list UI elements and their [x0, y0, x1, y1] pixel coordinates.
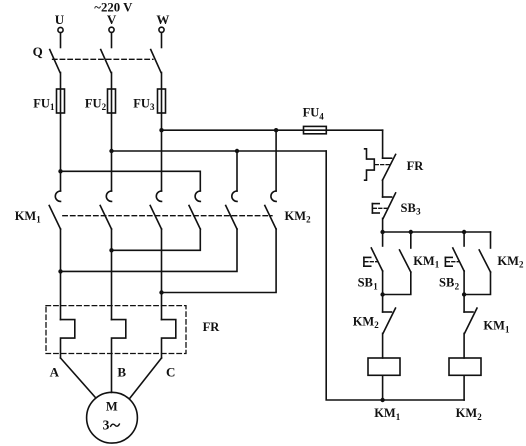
contactor KM2 label — [285, 209, 312, 225]
wire motor lead C — [130, 358, 162, 398]
contact KM1 auxiliary label — [413, 254, 440, 270]
wire SB1 bottom — [382, 271, 384, 295]
terminal V — [107, 12, 117, 32]
wire SB2 bottom — [463, 271, 465, 295]
coil KM1 — [368, 358, 400, 375]
node SB2-KM2aux junction — [462, 292, 466, 296]
wire motor lead A — [61, 358, 96, 397]
svg-text:V: V — [107, 12, 117, 27]
svg-text:4: 4 — [319, 111, 324, 121]
svg-text:2: 2 — [374, 320, 379, 330]
svg-text:2: 2 — [306, 215, 311, 225]
wire pole6 top feed — [275, 130, 277, 191]
contactor KM2 main contact pole 6 — [265, 191, 276, 229]
svg-text:1: 1 — [396, 412, 401, 422]
wire U above fuse — [60, 73, 62, 192]
svg-text:3: 3 — [416, 207, 421, 217]
node SB2 branch junction — [462, 230, 466, 234]
svg-text:KM: KM — [15, 209, 37, 223]
wire pole3 down to FR heater — [161, 229, 163, 320]
svg-text:FR: FR — [203, 320, 221, 334]
svg-text:FU: FU — [303, 106, 320, 120]
contactor mechanical link (dashed) — [63, 215, 272, 217]
contact KM1 auxiliary (NO, seal-in) — [383, 232, 411, 295]
wire V above fuse — [111, 73, 113, 192]
thermal relay FR heater phase B — [112, 320, 126, 393]
svg-text:2: 2 — [455, 281, 460, 291]
svg-text:C: C — [166, 365, 175, 380]
svg-text:FU: FU — [133, 96, 150, 110]
switch Q pole 1 blade — [50, 50, 60, 73]
wire pole2 down to FR heater — [111, 229, 113, 320]
svg-text:W: W — [156, 12, 169, 27]
contact KM1 interlock label — [483, 319, 510, 335]
svg-text:3: 3 — [150, 102, 155, 112]
node SB3 bottom junction — [380, 230, 384, 234]
svg-text:KM: KM — [456, 406, 478, 420]
node KM1 aux branch junction — [409, 230, 413, 234]
svg-text:1: 1 — [50, 102, 55, 112]
svg-text:1: 1 — [373, 281, 378, 291]
pushbutton SB3 label — [401, 201, 422, 217]
svg-text:1: 1 — [505, 324, 510, 334]
svg-text:KM: KM — [497, 254, 519, 268]
svg-text:SB: SB — [439, 276, 454, 290]
contactor KM2 main contact pole 4 — [189, 191, 200, 229]
pushbutton SB1 (start fwd, NO) — [364, 232, 383, 271]
pushbutton SB2 label — [439, 276, 460, 292]
coil KM2 label — [456, 406, 483, 422]
fuse FU2 — [85, 89, 116, 113]
svg-text:2: 2 — [477, 412, 482, 422]
node pole5 tap junction — [235, 149, 239, 153]
contactor KM1 main contact pole 2 — [100, 191, 111, 229]
pushbutton SB3 (stop, NC) — [372, 193, 395, 219]
svg-text:KM: KM — [483, 319, 505, 333]
contactor KM1 main contact pole 3 — [150, 191, 161, 229]
svg-text:2: 2 — [102, 102, 107, 112]
svg-text:KM: KM — [353, 314, 375, 328]
contact KM2 auxiliary label — [497, 254, 524, 270]
wire control branch rail — [383, 231, 491, 233]
svg-text:A: A — [50, 365, 60, 380]
wire control left rail — [326, 151, 464, 400]
svg-text:FU: FU — [33, 96, 50, 110]
wire V to control left rail — [112, 150, 327, 152]
svg-text:FU: FU — [85, 96, 102, 110]
switch Q pole 3 blade — [151, 50, 161, 73]
svg-text:KM: KM — [285, 209, 307, 223]
coil KM2 — [449, 358, 481, 375]
wire U terminal stem — [60, 33, 62, 48]
node pole5-U junction — [58, 269, 62, 273]
node SB1-KM1aux junction — [380, 292, 384, 296]
node pole6-W junction — [159, 290, 163, 294]
fuse FU3 — [133, 89, 165, 113]
svg-text:3: 3 — [103, 417, 110, 432]
motor M 3~ — [87, 392, 138, 443]
contactor KM1 main contact pole 1 — [49, 191, 60, 229]
contact KM2 interlock label — [353, 314, 380, 330]
terminal U — [55, 12, 65, 32]
fuse FU1 — [33, 89, 64, 113]
wire pole4 bottom to V column — [112, 229, 201, 250]
svg-text:B: B — [117, 365, 126, 380]
svg-text:Q: Q — [33, 44, 43, 59]
svg-text:FR: FR — [407, 159, 425, 173]
wire FR contact to SB3 — [382, 180, 384, 197]
node pole4-V junction — [109, 248, 113, 252]
node pole6 tap junction — [274, 128, 278, 132]
node U tap junction — [58, 169, 62, 173]
thermal relay FR heater phase C — [162, 320, 176, 358]
pushbutton SB2 (start rev, NO) — [445, 232, 464, 271]
thermal relay FR heater box (dashed) — [46, 306, 186, 354]
relay contact FR (normally closed, thermal) — [365, 149, 396, 180]
contact KM2 auxiliary (NO, seal-in) — [464, 232, 490, 295]
svg-text:1: 1 — [36, 215, 41, 225]
thermal relay FR heater phase A — [61, 320, 75, 358]
wire U to pole4 top — [61, 171, 201, 191]
contactor KM1 label — [15, 209, 42, 225]
switch Q pole 2 blade — [101, 50, 111, 73]
node coil KM1 bottom junction — [380, 398, 384, 402]
node V tap junction — [109, 149, 113, 153]
wire W terminal stem — [161, 33, 163, 48]
fuse FU4 — [303, 106, 327, 134]
wire pole5 top feed — [236, 151, 238, 191]
svg-text:1: 1 — [435, 260, 440, 270]
wire SB3 to branch rail — [382, 218, 384, 232]
pushbutton SB1 label — [358, 276, 379, 292]
wire W above fuse — [161, 73, 163, 192]
contact KM1 interlock (NC) — [464, 295, 477, 359]
svg-text:KM: KM — [374, 406, 396, 420]
wire control right rail down to FR contact — [382, 130, 384, 158]
wire V terminal stem — [111, 33, 113, 48]
switch Q mechanical link (dashed) — [53, 58, 154, 60]
wire pole6 bottom to W column — [162, 229, 277, 293]
svg-text:KM: KM — [413, 254, 435, 268]
svg-text:M: M — [106, 400, 118, 414]
wire pole1 down to FR heater — [60, 229, 62, 320]
contactor KM2 main contact pole 5 — [226, 191, 237, 229]
terminal W — [156, 12, 169, 32]
wire coil KM1 bottom — [382, 375, 384, 400]
wire pole5 bottom to U column — [61, 229, 238, 271]
svg-text:SB: SB — [401, 201, 416, 215]
node FU3 bottom junction — [159, 128, 163, 132]
wire W to FU4 and control rail — [162, 129, 383, 131]
svg-text:SB: SB — [358, 276, 373, 290]
contact KM2 interlock (NC) — [383, 295, 396, 359]
svg-text:U: U — [55, 12, 65, 27]
svg-text:2: 2 — [519, 260, 524, 270]
wire coil KM2 bottom — [463, 375, 465, 400]
coil KM1 label — [374, 406, 401, 422]
